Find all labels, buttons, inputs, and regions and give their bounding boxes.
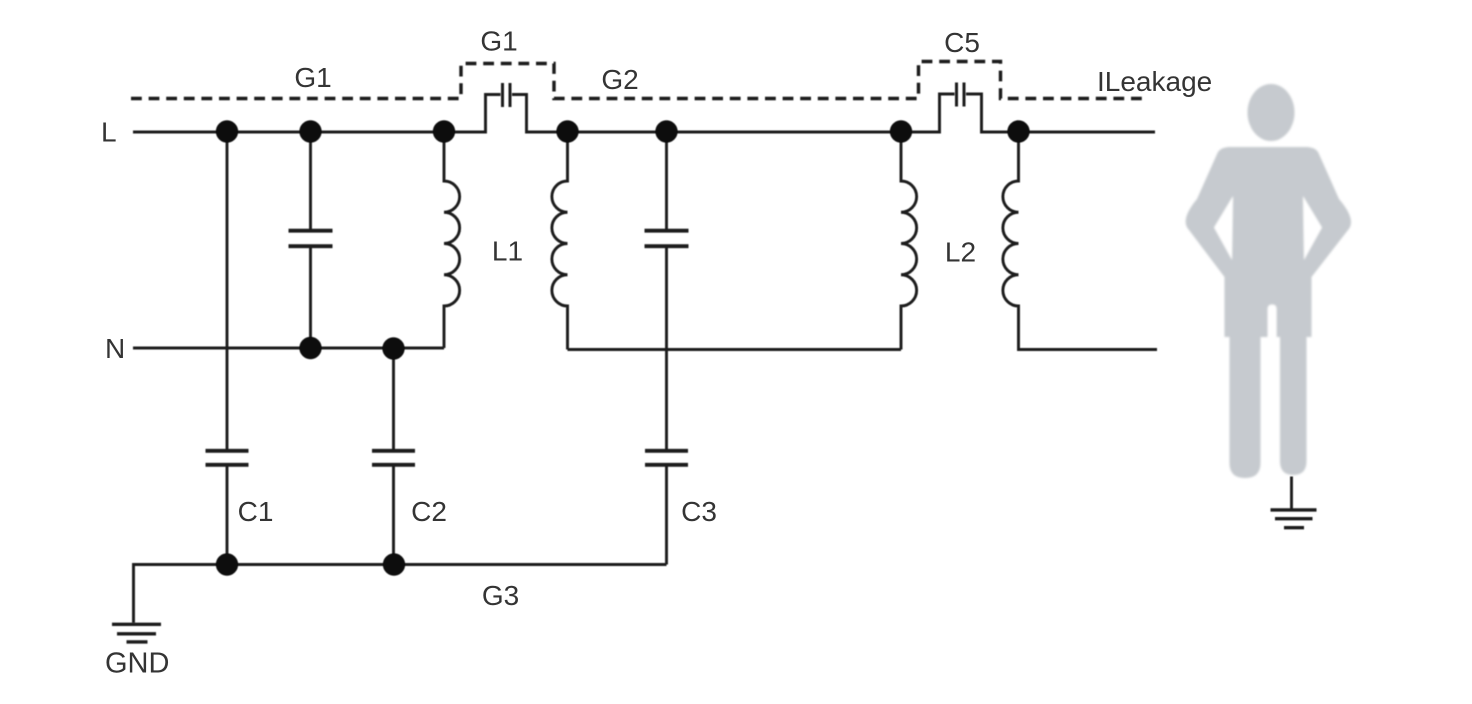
svg-text:L1: L1 [492,236,523,267]
svg-text:G1: G1 [480,26,517,57]
svg-text:N: N [105,333,125,364]
svg-text:G3: G3 [482,580,519,611]
svg-text:C3: C3 [681,496,717,527]
svg-text:L: L [101,117,117,148]
svg-text:C5: C5 [944,27,980,58]
svg-text:GND: GND [105,648,169,680]
svg-text:G2: G2 [601,64,638,95]
svg-text:C1: C1 [238,496,274,527]
svg-text:ILeakage: ILeakage [1097,66,1212,97]
svg-text:L2: L2 [945,237,976,268]
svg-text:G1: G1 [294,62,331,93]
svg-text:C2: C2 [411,496,447,527]
